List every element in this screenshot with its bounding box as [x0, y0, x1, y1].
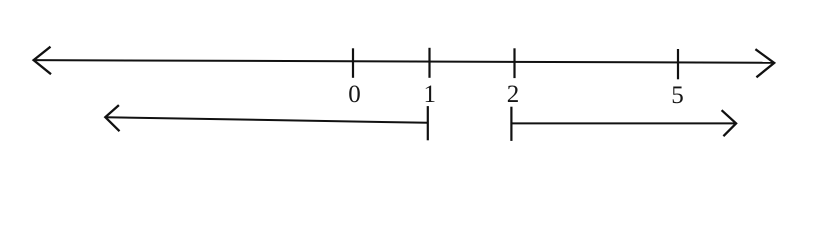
left arrowhead of number line	[34, 47, 51, 74]
svg-text:0: 0	[348, 81, 361, 108]
tick 5	[677, 49, 679, 79]
tick 1	[428, 48, 430, 78]
lower-right ray endpoint bar at 2	[510, 107, 512, 141]
lower-right ray shaft (x greater than 2)	[511, 122, 735, 124]
svg-text:2: 2	[507, 81, 520, 108]
svg-text:1: 1	[424, 81, 437, 108]
tick 0	[352, 48, 354, 78]
lower-left ray shaft (x less than 1)	[106, 117, 428, 123]
tick 2	[513, 48, 515, 78]
lower-left ray endpoint bar at 1	[427, 106, 429, 140]
lower-left ray arrowhead	[105, 105, 119, 131]
lower-right ray arrowhead	[722, 110, 737, 136]
right arrowhead of number line	[755, 49, 774, 77]
number line (main axis shaft)	[34, 60, 774, 63]
svg-text:5: 5	[671, 82, 684, 109]
